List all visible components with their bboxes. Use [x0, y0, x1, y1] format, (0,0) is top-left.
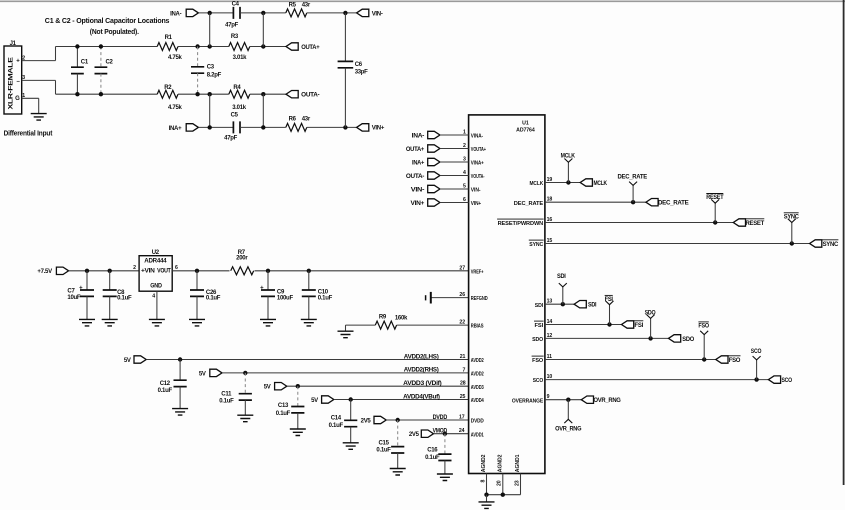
port VIN-	[357, 9, 369, 16]
ground R9	[338, 331, 354, 338]
svg-text:VIN+: VIN+	[471, 201, 481, 207]
svg-text:43r: 43r	[302, 117, 311, 123]
wire U1 pin 18 to DEC_RATE tag	[545, 201, 646, 203]
svg-text:28: 28	[460, 381, 466, 387]
svg-text:AVDD1: AVDD1	[471, 432, 484, 438]
svg-text:VREF+: VREF+	[471, 269, 484, 275]
ground C12	[172, 409, 188, 416]
svg-text:GND: GND	[150, 284, 162, 290]
svg-text:23: 23	[514, 480, 520, 486]
wire bottom rail (node after pin3)	[56, 93, 158, 95]
svg-text:DEC_RATE: DEC_RATE	[514, 201, 544, 207]
svg-text:+VIN: +VIN	[141, 269, 155, 275]
ground C26	[189, 319, 205, 326]
node SDO junction	[648, 336, 652, 340]
svg-text:SDO: SDO	[532, 337, 543, 343]
wire R9 to U1 RBIAS	[397, 324, 469, 326]
REFGND net symbol	[431, 297, 469, 299]
svg-text:ADR444: ADR444	[144, 259, 167, 265]
svg-text:2V5: 2V5	[361, 418, 372, 424]
svg-text:1: 1	[463, 129, 466, 135]
capacitor C10	[308, 271, 310, 290]
svg-text:SDI: SDI	[535, 303, 544, 309]
op-amp/ADC U1 AD7764 body	[469, 115, 545, 474]
svg-text:INA+: INA+	[412, 161, 425, 167]
svg-text:C5: C5	[231, 113, 239, 119]
svg-text:C2: C2	[106, 59, 114, 65]
port OUTA+	[286, 43, 298, 50]
ground C16	[437, 474, 453, 481]
svg-text:7: 7	[463, 367, 466, 373]
svg-text:Differential Input: Differential Input	[4, 129, 53, 138]
svg-text:C12: C12	[160, 381, 171, 387]
wire INA- node down to row2	[209, 13, 211, 47]
svg-text:3.01k: 3.01k	[233, 55, 248, 61]
capacitor C11	[244, 373, 246, 394]
capacitor C15	[397, 420, 399, 447]
capacitor C13	[297, 386, 299, 406]
svg-text:0.1uF: 0.1uF	[158, 388, 173, 394]
svg-text:OVR_RNG: OVR_RNG	[555, 426, 582, 432]
svg-text:8.2pF: 8.2pF	[207, 72, 222, 78]
svg-text:C11: C11	[221, 391, 232, 397]
svg-text:VIN-: VIN-	[411, 188, 425, 194]
capacitor C5	[233, 121, 240, 133]
svg-text:VIN+: VIN+	[411, 201, 425, 207]
svg-text:2V5: 2V5	[409, 432, 420, 438]
test point OVR_RNG	[567, 400, 569, 420]
test point FSO	[703, 335, 705, 360]
wire U1 pin 14 to FSI tag	[545, 324, 622, 326]
svg-text:20: 20	[497, 480, 503, 486]
svg-text:AVDD2: AVDD2	[471, 358, 484, 364]
frame top border	[0, 0, 845, 2]
svg-text:6: 6	[463, 197, 466, 203]
svg-text:4: 4	[463, 170, 466, 176]
svg-text:AVDD3 (VDif): AVDD3 (VDif)	[403, 381, 442, 387]
svg-text:21: 21	[460, 354, 466, 360]
port OUTA-	[286, 91, 298, 98]
svg-text:FSI: FSI	[605, 297, 614, 303]
svg-text:FSI: FSI	[634, 323, 643, 329]
capacitor C26	[196, 271, 198, 290]
wire AGND to ground	[486, 495, 488, 502]
wire R3 to OUTA+ tag	[250, 46, 286, 48]
svg-text:FSI: FSI	[535, 323, 544, 329]
port MCLK	[580, 179, 592, 186]
resistor R3	[229, 43, 250, 51]
svg-text:C16: C16	[427, 448, 438, 454]
svg-text:R6: R6	[289, 117, 297, 123]
wire J1 pin2 bend to top rail	[55, 47, 57, 61]
svg-text:4: 4	[152, 293, 155, 299]
svg-text:MCLK: MCLK	[530, 181, 544, 187]
wire INA+ tag to C5	[199, 126, 234, 128]
capacitor C4	[233, 7, 240, 19]
svg-text:160k: 160k	[395, 316, 408, 322]
svg-text:U1: U1	[522, 120, 529, 126]
svg-text:33pF: 33pF	[355, 70, 368, 76]
ground J1	[31, 114, 47, 121]
test point SDO	[650, 318, 652, 338]
svg-text:3.01k: 3.01k	[232, 105, 247, 111]
svg-text:0.1uF: 0.1uF	[117, 296, 132, 302]
resistor R4	[229, 90, 250, 98]
svg-text:DEC_RATE: DEC_RATE	[658, 201, 689, 207]
ground C13	[290, 429, 306, 436]
port SCO	[768, 376, 780, 383]
node INA+	[208, 125, 212, 129]
svg-text:AGND2: AGND2	[497, 454, 503, 472]
svg-text:(Not Populated).: (Not Populated).	[90, 27, 139, 36]
svg-text:C7: C7	[67, 288, 75, 294]
svg-text:SCO: SCO	[533, 378, 543, 384]
svg-text:5V: 5V	[264, 385, 271, 391]
wire R5 to VIN- tag	[307, 12, 357, 14]
svg-text:2: 2	[463, 143, 466, 149]
capacitor C2 (not populated)	[100, 47, 102, 68]
svg-text:0.1uF: 0.1uF	[219, 398, 234, 404]
wire +7.5V to U2 pin2	[69, 270, 139, 272]
capacitor C9	[267, 271, 269, 290]
svg-text:5V: 5V	[124, 358, 131, 364]
svg-text:MCLK: MCLK	[594, 181, 608, 187]
svg-text:SYNC: SYNC	[529, 242, 543, 248]
svg-text:OVERRANGE: OVERRANGE	[512, 398, 544, 404]
frame right border	[843, 0, 845, 485]
ground C11	[237, 415, 253, 422]
node VIN+ / C6 bottom	[343, 125, 347, 129]
svg-text:0.1uF: 0.1uF	[206, 296, 221, 302]
port SDI	[574, 301, 586, 308]
test point SCO	[756, 360, 758, 380]
svg-text:0.1uF: 0.1uF	[318, 295, 333, 301]
svg-text:SYNC: SYNC	[784, 214, 800, 220]
capacitor C16	[444, 434, 446, 454]
svg-text:INA-: INA-	[170, 11, 181, 17]
node after C4	[261, 11, 265, 15]
wire pin1 to ground	[38, 98, 40, 113]
svg-text:26: 26	[459, 292, 465, 298]
node INA-	[208, 11, 212, 15]
svg-text:10uF: 10uF	[67, 295, 80, 301]
svg-text:RESET: RESET	[746, 221, 765, 227]
wire U1 pin 15 to SYNC tag	[545, 243, 810, 245]
svg-text:47pF: 47pF	[224, 135, 237, 141]
ground U2	[149, 319, 165, 326]
wire U1 pin 16 to RESET tag	[545, 222, 733, 224]
svg-text:AVDD2: AVDD2	[471, 372, 484, 378]
capacitor C1	[76, 47, 78, 68]
svg-text:MCLK: MCLK	[561, 154, 576, 160]
svg-text:22: 22	[459, 320, 465, 326]
svg-text:VINA-: VINA-	[471, 134, 483, 140]
svg-text:J1: J1	[10, 41, 17, 47]
node RESET junction	[713, 220, 717, 224]
test point RESET	[714, 203, 716, 222]
svg-text:AGND1: AGND1	[515, 454, 521, 472]
port RESET	[733, 219, 745, 226]
svg-text:R3: R3	[231, 34, 239, 40]
svg-text:R1: R1	[165, 35, 173, 41]
svg-text:OUTA-: OUTA-	[406, 174, 424, 180]
resistor R6	[286, 123, 307, 131]
capacitor C8	[109, 271, 111, 290]
test point MCLK	[567, 162, 569, 182]
svg-text:C1 & C2 - Optional Capacitor L: C1 & C2 - Optional Capacitor Locations	[45, 16, 170, 25]
svg-text:C3: C3	[207, 64, 215, 70]
svg-text:24: 24	[459, 428, 465, 434]
port SDO	[669, 335, 681, 342]
node C3 top junction	[195, 44, 199, 48]
svg-text:0.1uF: 0.1uF	[425, 455, 440, 461]
svg-text:VIN-: VIN-	[372, 11, 383, 17]
node MCLK junction	[566, 180, 570, 184]
svg-text:8: 8	[480, 480, 486, 483]
svg-text:27: 27	[459, 265, 465, 271]
node OUTA- junction	[261, 92, 265, 96]
wire U1 pin 13 to SDI tag	[545, 303, 574, 305]
resistor R1	[157, 43, 178, 51]
wire INA- tag to C4	[199, 12, 234, 14]
ground C9	[260, 319, 276, 326]
ground C10	[301, 319, 317, 326]
svg-text:47pF: 47pF	[225, 23, 238, 29]
wire AGND bus	[487, 494, 521, 496]
svg-text:RESET/PWRDWN: RESET/PWRDWN	[498, 221, 544, 227]
svg-text:VIN+: VIN+	[372, 126, 385, 132]
svg-text:AGND2: AGND2	[481, 454, 487, 472]
svg-text:200r: 200r	[236, 256, 248, 262]
svg-text:AD7764: AD7764	[516, 127, 535, 133]
wire C4 to R5	[240, 12, 286, 14]
svg-text:FSO: FSO	[532, 358, 543, 364]
node FSI junction	[607, 322, 611, 326]
port OVR_RNG	[581, 396, 593, 403]
node INA+ column junction	[208, 92, 212, 96]
svg-text:C14: C14	[331, 416, 342, 422]
resistor R5	[286, 9, 307, 17]
port FSI	[622, 321, 634, 328]
svg-text:G: G	[15, 96, 20, 102]
svg-text:0.1uF: 0.1uF	[329, 423, 344, 429]
port SYNC	[810, 240, 822, 247]
test point DEC_RATE	[632, 185, 634, 202]
wire R2 to R4	[178, 93, 229, 95]
wire C4 node down to row2	[262, 13, 264, 47]
svg-text:REFGND: REFGND	[471, 296, 488, 302]
svg-text:SYNC: SYNC	[823, 242, 839, 248]
wire top rail (node after pin2)	[56, 46, 158, 48]
resistor R2	[157, 90, 178, 98]
svg-text:+7.5V: +7.5V	[37, 269, 52, 275]
wire J1 pin3 bend to bottom rail	[55, 80, 57, 94]
capacitor C6	[344, 13, 346, 62]
ground C8	[102, 319, 118, 326]
svg-text:DVDD: DVDD	[433, 415, 448, 421]
svg-text:2: 2	[133, 265, 136, 271]
ground C15	[390, 469, 406, 476]
test point SDI	[562, 287, 564, 304]
svg-text:5V: 5V	[311, 398, 318, 404]
svg-text:OUTA+: OUTA+	[406, 147, 425, 153]
svg-text:XLR-FEMALE: XLR-FEMALE	[9, 57, 15, 109]
svg-text:100uF: 100uF	[277, 295, 294, 301]
wire U1 pin 10 to SCO tag	[545, 379, 769, 381]
voltage reference U2 ADR444	[139, 256, 172, 292]
svg-text:AVDD2(LHS): AVDD2(LHS)	[404, 354, 439, 360]
ground AGND	[479, 502, 495, 509]
svg-text:17: 17	[459, 414, 465, 420]
node C3 bottom junction	[195, 92, 199, 96]
wire U2 pin6 to U1 VREF+ (pin 27)	[172, 270, 468, 272]
wire U1 pin 19 to MCLK tag	[545, 182, 580, 184]
svg-text:DEC_RATE: DEC_RATE	[618, 174, 648, 180]
svg-text:AVDD4(VBuf): AVDD4(VBuf)	[403, 394, 440, 400]
node INA- column junction	[208, 44, 212, 48]
svg-text:VOUTA-: VOUTA-	[471, 174, 485, 180]
svg-text:SCO: SCO	[782, 378, 793, 384]
svg-text:C4: C4	[232, 1, 240, 7]
svg-text:OVR_RNG: OVR_RNG	[594, 398, 622, 404]
svg-text:0.1uF: 0.1uF	[276, 411, 291, 417]
test point SYNC	[791, 223, 793, 244]
resistor R9	[375, 321, 396, 329]
connector J1 XLR-FEMALE	[4, 46, 22, 114]
svg-text:DVDD: DVDD	[471, 419, 484, 425]
svg-text:C6: C6	[355, 62, 363, 68]
svg-text:R2: R2	[164, 85, 172, 91]
svg-text:INA-: INA-	[412, 134, 425, 140]
node DEC_RATE junction	[631, 200, 635, 204]
svg-text:SCO: SCO	[751, 349, 762, 355]
wire U1 pin 11 to FSO tag	[545, 359, 716, 361]
svg-text:5V: 5V	[199, 371, 206, 377]
wire U1 pin 9 to OVR_RNG tag	[545, 399, 581, 401]
svg-text:C13: C13	[278, 403, 289, 409]
resistor R7	[230, 266, 255, 276]
svg-text:FSO: FSO	[729, 358, 741, 364]
svg-text:VOUT: VOUT	[157, 269, 171, 275]
svg-text:OUTA+: OUTA+	[301, 45, 320, 51]
svg-text:AVDD3: AVDD3	[471, 385, 484, 391]
capacitor C7	[86, 271, 88, 290]
wire C5 to R6	[240, 126, 286, 128]
svg-text:C1: C1	[81, 59, 89, 65]
svg-text:4.75k: 4.75k	[168, 105, 183, 111]
svg-text:FSO: FSO	[698, 323, 709, 329]
svg-text:SDI: SDI	[557, 274, 566, 280]
svg-text:VIN-: VIN-	[471, 188, 481, 194]
svg-text:VINA+: VINA+	[471, 161, 484, 167]
svg-text:3: 3	[463, 156, 466, 162]
node FSO junction	[702, 357, 706, 361]
svg-text:INA+: INA+	[169, 126, 182, 132]
svg-text:SDO: SDO	[645, 311, 656, 317]
svg-text:SDO: SDO	[682, 337, 694, 343]
svg-text:OUTA-: OUTA-	[301, 93, 319, 99]
wire R1 to R3	[178, 46, 229, 48]
node OUTA+ junction	[261, 44, 265, 48]
ground C7	[79, 319, 95, 326]
svg-text:U2: U2	[152, 250, 160, 256]
svg-text:AVDD4: AVDD4	[471, 398, 484, 404]
port DEC_RATE	[646, 199, 658, 206]
svg-text:R4: R4	[233, 85, 241, 91]
node SYNC junction	[790, 241, 794, 245]
svg-text:4.75k: 4.75k	[168, 55, 183, 61]
node SCO junction	[754, 377, 758, 381]
svg-text:RBIAS: RBIAS	[471, 324, 484, 330]
svg-text:VOUTA+: VOUTA+	[471, 147, 486, 153]
port FSO	[716, 356, 728, 363]
node OVR_RNG junction	[566, 398, 570, 402]
svg-text:6: 6	[175, 265, 178, 271]
svg-text:RESET: RESET	[706, 195, 724, 201]
svg-text:AVDD2(RHS): AVDD2(RHS)	[404, 368, 439, 374]
svg-text:R5: R5	[289, 2, 297, 8]
wire R6 to VIN+ tag	[307, 126, 357, 128]
wire row3 down to row4 (INA+ col)	[209, 94, 211, 127]
node after C5	[261, 125, 265, 129]
port VIN+	[357, 124, 369, 131]
test point FSI	[609, 305, 611, 325]
svg-text:C15: C15	[379, 441, 390, 447]
svg-text:SDI: SDI	[588, 303, 597, 309]
svg-text:5: 5	[463, 183, 466, 189]
wire R4 to OUTA- tag	[250, 93, 286, 95]
capacitor C12	[179, 360, 181, 381]
node SDI junction	[561, 302, 565, 306]
svg-text:25: 25	[460, 394, 466, 400]
wire U1 pin 12 to SDO tag	[545, 337, 669, 339]
wire row3 down to row4 (C5 col)	[262, 94, 264, 127]
capacitor C3	[197, 47, 199, 67]
svg-text:0.1uF: 0.1uF	[376, 447, 391, 453]
svg-text:R9: R9	[379, 315, 387, 321]
node VIN- / C6 top	[343, 11, 347, 15]
wire RBIAS ground stub	[345, 325, 347, 331]
capacitor C14	[350, 400, 352, 421]
svg-text:43r: 43r	[302, 2, 311, 8]
ground C14	[343, 443, 359, 450]
